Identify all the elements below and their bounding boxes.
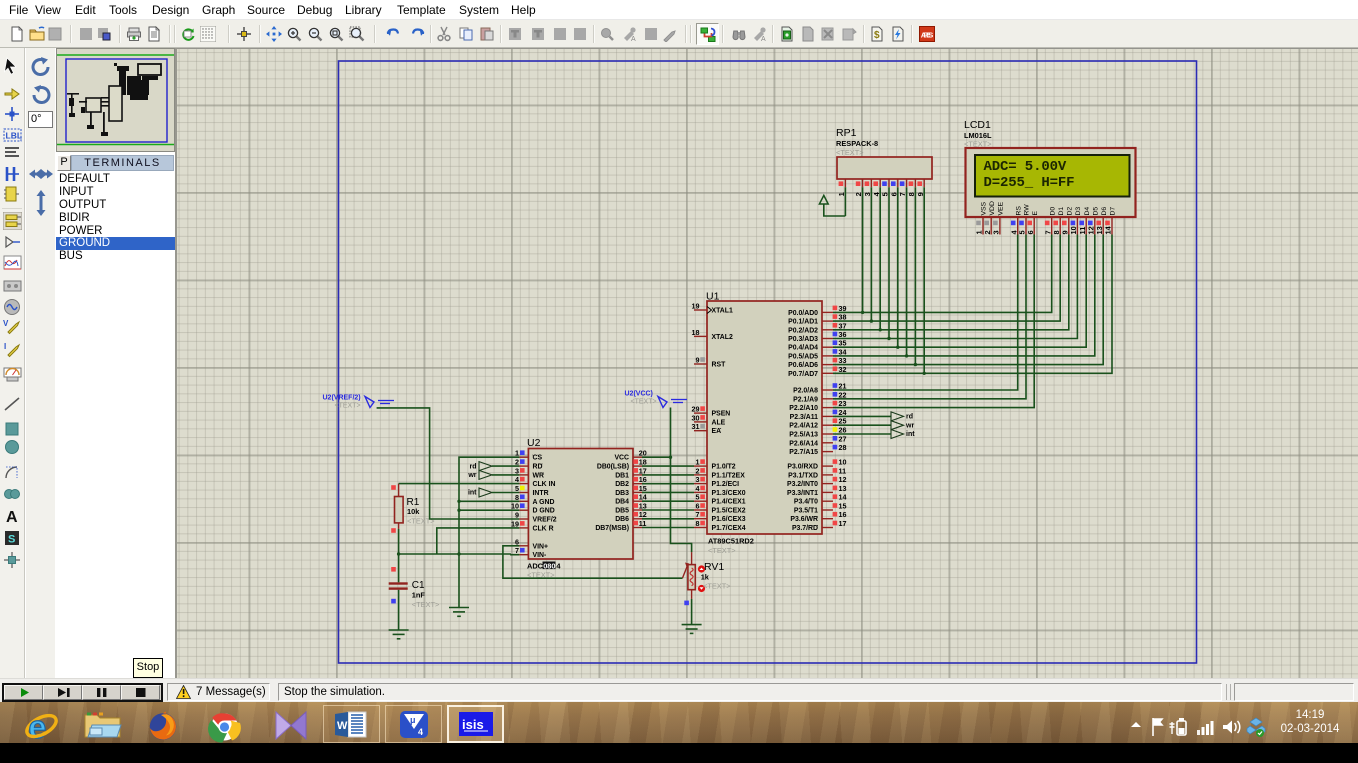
wire P2.1 to LCD RW [833, 235, 1026, 399]
LCD1 pin 12 stub [1094, 217, 1096, 235]
svg-text:e: e [29, 709, 47, 743]
svg-text:VIN+: VIN+ [533, 543, 549, 550]
svg-text:int: int [468, 490, 477, 497]
svg-text:10: 10 [511, 502, 519, 511]
svg-text:31: 31 [692, 422, 700, 431]
svg-text:13: 13 [1095, 226, 1104, 234]
U2 pin number 13 [633, 503, 638, 508]
svg-text:29: 29 [692, 405, 700, 414]
U1 pin 23 stub [822, 407, 833, 409]
svg-text:wr: wr [905, 422, 914, 429]
svg-text:VREF/2: VREF/2 [533, 517, 557, 524]
svg-text:P3.6/WR: P3.6/WR [790, 516, 818, 523]
svg-text:6: 6 [515, 537, 519, 546]
wire RC junction to VIN- [399, 553, 511, 555]
RV1 increment button [698, 565, 705, 572]
svg-text:18: 18 [692, 328, 700, 337]
svg-text:VCC: VCC [614, 455, 629, 462]
svg-text:RST: RST [712, 362, 727, 369]
wire RP1 pin 6 riser [897, 187, 899, 347]
LCD1 pin 8 stub [1059, 217, 1061, 235]
svg-text:P2.1/A9: P2.1/A9 [793, 396, 818, 403]
U2 pin 8 stub [519, 500, 528, 502]
svg-text:28: 28 [839, 443, 847, 452]
svg-text:rd: rd [906, 414, 913, 421]
U2 pin 20 stub [633, 456, 642, 458]
U1 pin number 28 [833, 445, 838, 450]
U2 pin 18 stub [633, 465, 642, 467]
U1 pin 18 (XTAL2) stub [694, 335, 707, 337]
svg-text:10: 10 [1069, 226, 1078, 234]
U1 pin number 15 [833, 503, 838, 508]
svg-text:P0.5/AD5: P0.5/AD5 [788, 353, 818, 360]
tooltip Stop [133, 658, 163, 678]
U1 pin 32 stub [822, 372, 833, 374]
ground (RV1) [682, 625, 702, 634]
U1 pin 8 (P1.7) stub [694, 527, 707, 529]
U1 pin 29 (PSEN) stub [694, 412, 707, 414]
resistor R1 10k body [395, 497, 404, 523]
LCD1 pin 4 stub [1017, 217, 1019, 235]
svg-text:P0.1/AD1: P0.1/AD1 [788, 319, 818, 326]
output terminal int (right) [891, 430, 904, 439]
svg-text:4: 4 [515, 475, 519, 484]
svg-text:P0.7/AD7: P0.7/AD7 [788, 371, 818, 378]
svg-text:D5: D5 [1092, 207, 1099, 216]
svg-text:P2.2/A10: P2.2/A10 [789, 405, 818, 412]
svg-text:RP1: RP1 [836, 127, 857, 139]
wire U1 to int terminal [833, 433, 891, 435]
U1 pin number 21 [833, 383, 838, 388]
U1 pin 4 (P1.3) stub [694, 491, 707, 493]
U1 XTAL1 input chevron [707, 307, 712, 314]
wire RP1 pin 5 riser [888, 187, 890, 338]
sheet green edge tick [171, 59, 173, 65]
svg-text:VDD: VDD [989, 201, 996, 215]
U1 pin 26 stub [822, 433, 833, 435]
wire P0.3 horizontal+LCD riser [833, 235, 1077, 339]
RP1 pin 9 stub [923, 179, 925, 187]
wire R1-C1 [398, 529, 400, 582]
wire P0.0 horizontal+LCD riser [833, 235, 1052, 313]
svg-text:D4: D4 [1084, 207, 1091, 216]
U2 pin number 17 [633, 468, 638, 473]
svg-text:P2.3/A11: P2.3/A11 [790, 414, 819, 421]
RP1 pin 4 stub [879, 179, 881, 187]
wire P0.7 horizontal+LCD riser [833, 235, 1112, 374]
svg-text:U1: U1 [706, 291, 720, 303]
svg-text:18: 18 [639, 458, 647, 467]
svg-text:XTAL2: XTAL2 [712, 334, 733, 341]
LCD1 screen [975, 155, 1130, 197]
U1 pin number 32 [833, 367, 838, 372]
svg-text:A: A [6, 509, 18, 525]
svg-text:13: 13 [639, 502, 647, 511]
U2 pin 16 stub [633, 483, 642, 485]
input terminal rd (left) [479, 462, 492, 471]
svg-text:11: 11 [639, 519, 647, 528]
svg-text:33: 33 [839, 356, 847, 365]
U2 pin number 11 [633, 521, 638, 526]
U1 pin 21 stub [822, 389, 833, 391]
U1 pin 6 (P1.5) stub [694, 509, 707, 511]
svg-text:5: 5 [515, 484, 519, 493]
U1 pin number 13 [833, 486, 838, 491]
LCD1 pin 10 stub [1076, 217, 1078, 235]
svg-text:P3.7/RD: P3.7/RD [792, 525, 818, 532]
wire RP1 pin 8 riser [914, 187, 916, 364]
U1 pin number 12 [833, 477, 838, 482]
U2 pin number 14 [633, 494, 638, 499]
wire P0.1 horizontal+LCD riser [833, 235, 1060, 322]
LCD1 pin 14 stub [1111, 217, 1113, 235]
U2 pin 14 stub [633, 500, 642, 502]
svg-text:10k: 10k [407, 507, 420, 516]
U1 pin 34 stub [822, 355, 833, 357]
U2 pin 13 stub [633, 509, 642, 511]
junction VCC net [669, 456, 672, 459]
svg-text:RV1: RV1 [704, 561, 724, 573]
U2 pin 6 stub [519, 545, 528, 547]
U1 pin 27 stub [822, 442, 833, 444]
wire P2.0 to LCD RS [833, 235, 1018, 391]
svg-text:P3.5/T1: P3.5/T1 [794, 508, 818, 515]
svg-text:8: 8 [696, 519, 700, 528]
LCD1 pin 9 stub [1068, 217, 1070, 235]
LCD1 pin 6 stub [1033, 217, 1035, 235]
LCD1 pin 7 stub [1051, 217, 1053, 235]
wire CLK R [437, 528, 520, 554]
svg-text:1k: 1k [701, 573, 710, 582]
RP1 pin 6 stub [897, 179, 899, 187]
svg-text:4: 4 [696, 484, 700, 493]
U2 pin 5 stub [519, 492, 528, 494]
svg-text:16: 16 [639, 475, 647, 484]
svg-text:VEE: VEE [998, 201, 1005, 215]
svg-text:14: 14 [839, 493, 847, 502]
svg-text:D GND: D GND [533, 508, 555, 515]
U1 pin 25 stub [822, 424, 833, 426]
U2 value label ADC0804 (partially inverted) [543, 562, 556, 570]
RV1 wiper arrow [682, 566, 687, 579]
svg-text:VIN-: VIN- [533, 552, 547, 559]
svg-text:ADC: ADC [527, 562, 544, 571]
R1 top pin state square [391, 485, 396, 490]
wire C1 ground [398, 590, 400, 630]
U2(VREF/2) terminal dashes [378, 401, 394, 404]
svg-text:LCD1: LCD1 [964, 119, 991, 131]
svg-text:22: 22 [839, 390, 847, 399]
svg-text:30: 30 [692, 413, 700, 422]
C1 top pin state square [391, 567, 396, 572]
svg-text:P2.4/A12: P2.4/A12 [789, 423, 818, 430]
U2(VCC) terminal dashes [671, 400, 687, 403]
U1 pin 1 (P1.0) stub [694, 465, 707, 467]
LCD1 body [966, 148, 1136, 217]
wire P0.5 horizontal+LCD riser [833, 235, 1095, 356]
U1 pin 39 stub [822, 311, 833, 313]
svg-text:25: 25 [839, 417, 847, 426]
ground (U2 grounds) [449, 608, 469, 617]
U2 pin 9 stub [519, 518, 528, 520]
U1 pin number 34 [833, 349, 838, 354]
svg-text:27: 27 [839, 434, 847, 443]
svg-text:DB3: DB3 [615, 490, 629, 497]
wire U1 to rd terminal [833, 415, 891, 417]
U1 pin number 26 [833, 427, 838, 432]
potentiometer RV1 1k body [688, 565, 695, 590]
LCD1 pin 11 stub [1085, 217, 1087, 235]
svg-text:39: 39 [839, 304, 847, 313]
svg-text:P3.2/INT0: P3.2/INT0 [787, 481, 818, 488]
svg-text:D0: D0 [1049, 207, 1056, 216]
svg-text:VSS: VSS [981, 201, 988, 215]
svg-text:34: 34 [839, 347, 847, 356]
wire DB1 [642, 474, 694, 476]
svg-text:P1.7/CEX4: P1.7/CEX4 [712, 525, 746, 532]
svg-text:DB6: DB6 [615, 516, 629, 523]
svg-text:P3.1/TXD: P3.1/TXD [788, 472, 818, 479]
RP1 pin 5 stub [888, 179, 890, 187]
svg-text:24: 24 [839, 408, 847, 417]
wire DB7 [642, 527, 694, 529]
chip U1 AT89C51RD2 body [707, 301, 822, 534]
U2 pin number 15 [633, 486, 638, 491]
svg-text:11: 11 [839, 466, 847, 475]
svg-text:4: 4 [556, 562, 561, 571]
wire DGND [459, 509, 519, 511]
svg-text:D3: D3 [1075, 207, 1082, 216]
U2 pin 1 stub [519, 456, 528, 458]
svg-text:U2: U2 [527, 437, 541, 449]
svg-text:23: 23 [839, 399, 847, 408]
R1 bottom terminal [398, 523, 400, 529]
RV1 winding squiggle [690, 568, 693, 586]
wire P0.6 horizontal+LCD riser [833, 235, 1103, 365]
svg-text:13: 13 [839, 484, 847, 493]
svg-text:S: S [8, 534, 15, 546]
svg-text:C1: C1 [412, 580, 425, 591]
svg-text:EA: EA [712, 428, 722, 435]
svg-text:CLK R: CLK R [533, 525, 554, 532]
svg-text:26: 26 [839, 426, 847, 435]
svg-text:9: 9 [696, 356, 700, 365]
svg-text:P2.6/A14: P2.6/A14 [789, 440, 818, 447]
input terminal int (left) [479, 488, 492, 497]
svg-text:P1.3/CEX0: P1.3/CEX0 [712, 490, 746, 497]
left tool strip [0, 48, 25, 678]
LCD1 pin 1 stub [982, 217, 984, 235]
svg-text:P1.0/T2: P1.0/T2 [712, 464, 736, 471]
U1 pin number 35 [833, 340, 838, 345]
wire VCC net vertical [671, 408, 692, 553]
U1 pin 14 stub [822, 500, 833, 502]
U1 pin 13 stub [822, 491, 833, 493]
LCD1 pin 13 stub [1102, 217, 1104, 235]
input terminal wr (left) [479, 470, 492, 479]
U1 pin 9 (RST) stub [694, 363, 707, 365]
wire P0.2 horizontal+LCD riser [833, 235, 1069, 330]
U2 pin 2 stub [519, 465, 528, 467]
svg-text:CLK IN: CLK IN [533, 481, 556, 488]
svg-text:U2(VCC): U2(VCC) [625, 391, 653, 398]
svg-text:8: 8 [515, 493, 519, 502]
svg-text:17: 17 [639, 466, 647, 475]
svg-text:rd: rd [470, 463, 477, 470]
svg-text:μ: μ [410, 715, 416, 725]
wire wr to U2 [492, 474, 519, 476]
svg-text:P2.7/A15: P2.7/A15 [789, 449, 818, 456]
RV1 bottom pin state square [684, 601, 689, 606]
svg-text:6: 6 [696, 502, 700, 511]
menu bar [0, 0, 1358, 20]
C1 bottom pin state square [391, 599, 396, 604]
svg-text:2: 2 [696, 466, 700, 475]
capacitor C1 1nF plates [389, 582, 408, 584]
svg-text:7: 7 [515, 546, 519, 555]
svg-text:D6: D6 [1101, 207, 1108, 216]
U2 pin number 12 [633, 512, 638, 517]
U2 pin 7 stub [519, 554, 528, 556]
svg-text:RD: RD [533, 464, 543, 471]
simulation control bar [0, 678, 1358, 702]
chip U2 ADC0804 body [528, 449, 633, 560]
svg-text:<TEXT>: <TEXT> [703, 582, 731, 591]
svg-text:D1: D1 [1058, 207, 1065, 216]
svg-text:WR: WR [533, 472, 545, 479]
svg-text:DB7(MSB): DB7(MSB) [595, 525, 629, 532]
U1 pin 17 stub [822, 527, 833, 529]
svg-text:12: 12 [839, 475, 847, 484]
svg-text:U2(VREF/2): U2(VREF/2) [323, 395, 361, 402]
wire RV1 ground [691, 599, 693, 625]
wire RP1 pin 7 riser [906, 187, 908, 356]
U1 pin 38 stub [822, 320, 833, 322]
svg-text:38: 38 [839, 313, 847, 322]
svg-text:LBL: LBL [6, 131, 23, 141]
wire DB6 [642, 518, 694, 520]
svg-text:3: 3 [992, 230, 1001, 234]
U2 pin 12 stub [633, 518, 642, 520]
sheet border [339, 61, 1197, 663]
wire DB4 [642, 500, 694, 502]
output terminal rd (right) [891, 412, 904, 421]
U1 pin 30 (ALE) stub [694, 421, 707, 423]
svg-text:080: 080 [543, 562, 555, 571]
power terminal U2(VREF/2) [365, 397, 374, 408]
svg-text:DB4: DB4 [615, 499, 629, 506]
U1 pin 24 stub [822, 415, 833, 417]
svg-text:P0.4/AD4: P0.4/AD4 [788, 345, 818, 352]
U1 pin number 16 [833, 512, 838, 517]
RV1 bottom terminal [691, 590, 693, 599]
U1 pin number 27 [833, 436, 838, 441]
svg-text:P3.4/T0: P3.4/T0 [794, 499, 818, 506]
svg-text:1nF: 1nF [412, 591, 426, 600]
ground (C1) [389, 630, 409, 639]
U1 pin 3 (P1.2) stub [694, 483, 707, 485]
U1 pin number 14 [833, 494, 838, 499]
svg-text:RESPACK-8: RESPACK-8 [836, 139, 878, 148]
svg-text:ADC= 5.00V: ADC= 5.00V [984, 159, 1067, 175]
U1 pin number 11 [833, 468, 838, 473]
wire U2 VCC pin [642, 456, 671, 458]
U1 pin number 38 [833, 314, 838, 319]
svg-text:E: E [1032, 211, 1039, 216]
wire RP1 pin 4 riser [879, 187, 881, 330]
svg-text:ALE: ALE [712, 419, 726, 426]
svg-text:P2.5/A13: P2.5/A13 [789, 432, 818, 439]
svg-text:P0.6/AD6: P0.6/AD6 [788, 362, 818, 369]
svg-text:AT89C51RD2: AT89C51RD2 [708, 537, 754, 546]
svg-text:INTR: INTR [533, 490, 549, 497]
svg-text:D=255_ H=FF: D=255_ H=FF [984, 175, 1075, 191]
U1 pin 37 stub [822, 329, 833, 331]
output terminal wr (right) [891, 421, 904, 430]
svg-text:<TEXT>: <TEXT> [335, 403, 361, 410]
U1 pin 2 (P1.1) stub [694, 474, 707, 476]
resistor pack RP1 RESPACK-8 body [837, 157, 932, 179]
wire DB0 [642, 465, 694, 467]
svg-text:20: 20 [639, 449, 647, 458]
U1 pin number 22 [833, 392, 838, 397]
U1 pin number 37 [833, 323, 838, 328]
RP1 pin 2 stub [862, 179, 864, 187]
svg-text:9: 9 [515, 511, 519, 520]
toolbar [0, 20, 1358, 48]
svg-text:D2: D2 [1066, 207, 1073, 216]
svg-text:DB1: DB1 [615, 472, 629, 479]
U2 pin 11 stub [633, 527, 642, 529]
U1 pin number 23 [833, 401, 838, 406]
wire VIN- stub link [511, 553, 520, 556]
U1 pin number 25 [833, 418, 838, 423]
LCD1 pin 3 stub [999, 217, 1001, 235]
U1 pin 5 (P1.4) stub [694, 500, 707, 502]
svg-text:3: 3 [696, 475, 700, 484]
wire AGND [459, 500, 519, 502]
svg-text:36: 36 [839, 330, 847, 339]
svg-text:2: 2 [515, 458, 519, 467]
svg-text:P3.3/INT1: P3.3/INT1 [787, 490, 818, 497]
U1 pin 22 stub [822, 398, 833, 400]
U2 pin number 16 [633, 477, 638, 482]
svg-text:21: 21 [839, 382, 847, 391]
svg-text:P1.5/CEX2: P1.5/CEX2 [712, 508, 746, 515]
svg-text:RW: RW [1024, 204, 1031, 216]
svg-text:wr: wr [467, 472, 476, 479]
U2 pin 19 stub [519, 527, 528, 529]
svg-text:1: 1 [696, 458, 700, 467]
U1 pin number 24 [833, 410, 838, 415]
svg-text:<TEXT>: <TEXT> [412, 600, 440, 609]
svg-text:P3.0/RXD: P3.0/RXD [787, 464, 818, 471]
svg-text:DB0(LSB): DB0(LSB) [597, 464, 629, 471]
U1 pin 33 stub [822, 364, 833, 366]
svg-text:10: 10 [839, 458, 847, 467]
svg-text:4: 4 [418, 727, 423, 737]
wire RP1 pin 2 riser [862, 187, 864, 312]
svg-text:int: int [906, 431, 915, 438]
wire DB5 [642, 509, 694, 511]
U2 pin number 18 [633, 459, 638, 464]
svg-text:P1.6/CEX3: P1.6/CEX3 [712, 516, 746, 523]
svg-text:V: V [3, 319, 9, 328]
svg-text:W: W [337, 720, 348, 732]
U1 pin 19 (XTAL1) stub [694, 309, 707, 311]
U1 pin number 17 [833, 521, 838, 526]
svg-text:35: 35 [839, 339, 847, 348]
